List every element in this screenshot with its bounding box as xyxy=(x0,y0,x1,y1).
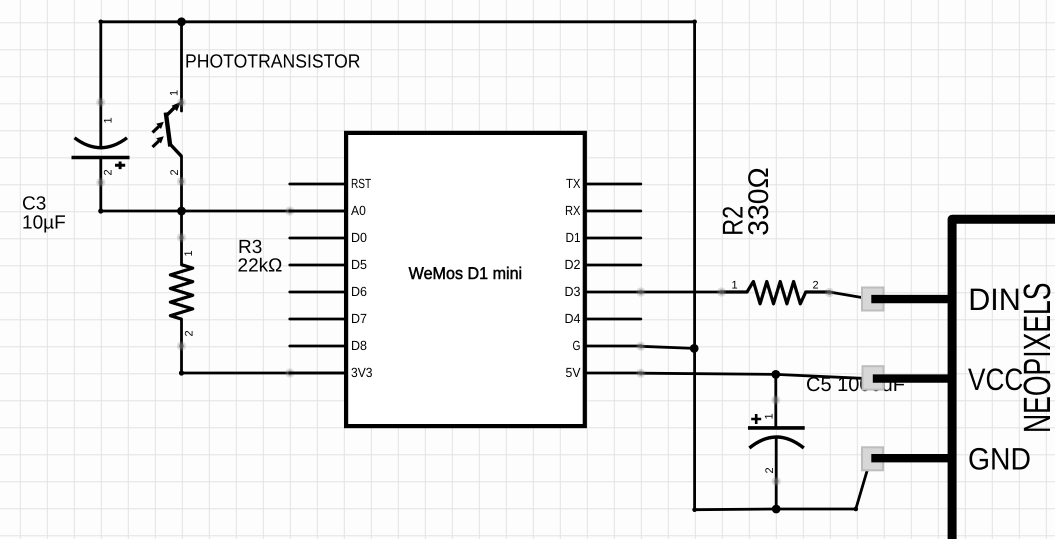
svg-text:D3: D3 xyxy=(565,284,581,299)
connection blob C3 pin1 xyxy=(96,98,105,107)
wire left vertical to C3 pin1 xyxy=(99,22,102,147)
svg-text:D0: D0 xyxy=(351,230,367,245)
svg-text:1: 1 xyxy=(764,413,776,419)
pad GND xyxy=(862,447,883,470)
pin stub D3 xyxy=(587,291,641,294)
pin stub D8 xyxy=(290,345,344,348)
svg-text:WeMos D1 mini: WeMos D1 mini xyxy=(409,264,523,283)
wire bottom horizontal to A0 xyxy=(101,210,344,213)
svg-text:2: 2 xyxy=(764,467,776,473)
neopixel strip VCC leg xyxy=(873,374,952,382)
junction dot 5V node xyxy=(771,370,780,379)
resistor R2 xyxy=(722,282,830,304)
junction dot R3 bottom corner xyxy=(179,370,184,375)
svg-text:1: 1 xyxy=(103,117,115,123)
connection blob D3 stub xyxy=(636,287,645,296)
svg-text:D8: D8 xyxy=(351,338,367,353)
wire bottom horizontal xyxy=(695,508,856,512)
resistor R3 xyxy=(170,211,192,373)
svg-text:A0: A0 xyxy=(351,203,366,218)
svg-text:D2: D2 xyxy=(565,257,581,272)
pin stub D4 xyxy=(587,318,641,321)
pin stub D2 xyxy=(587,264,641,267)
svg-text:VCC: VCC xyxy=(968,362,1023,397)
svg-text:2: 2 xyxy=(169,169,181,175)
neopixel strip GND leg xyxy=(871,454,952,462)
junction dot top left corner xyxy=(99,20,104,25)
svg-text:NEOPIXELS: NEOPIXELS xyxy=(1017,283,1055,434)
wire R2 to DIN pad xyxy=(830,292,872,299)
svg-text:10µF: 10µF xyxy=(22,212,66,233)
connection blob G stub xyxy=(636,342,645,351)
junction dot phototransistor top xyxy=(177,17,186,26)
phototransistor Q1 xyxy=(153,22,182,211)
svg-text:RX: RX xyxy=(565,203,581,218)
pin stub 5V xyxy=(587,372,641,375)
svg-text:D5: D5 xyxy=(351,257,367,272)
connection blob phototransistor pin2 xyxy=(177,177,186,186)
wire D3 to R2 xyxy=(641,291,722,294)
wire C3 pin2 down xyxy=(99,158,102,212)
connection blob R3 pin1 xyxy=(177,233,186,242)
connection blob 5V stub xyxy=(636,369,645,378)
junction dot bottom bend xyxy=(854,507,859,512)
svg-text:2: 2 xyxy=(184,330,196,336)
pin stub D6 xyxy=(290,291,344,294)
junction dot C5 bottom node xyxy=(772,505,781,514)
svg-text:D7: D7 xyxy=(351,311,367,326)
svg-text:D6: D6 xyxy=(351,284,367,299)
neopixel strip bar xyxy=(952,219,1055,539)
junction dot G node xyxy=(690,344,699,353)
wire top horizontal net xyxy=(101,20,695,23)
pad VCC xyxy=(863,366,884,389)
pin stub D0 xyxy=(290,237,344,240)
pin stub A0 xyxy=(290,210,344,213)
svg-text:RST: RST xyxy=(351,176,371,191)
wire main vertical right xyxy=(693,22,696,510)
junction dot node A0 xyxy=(177,207,186,216)
connection blob 3V3 stub xyxy=(285,368,294,377)
svg-text:D4: D4 xyxy=(565,311,581,326)
connection blob R2 pin1 xyxy=(717,287,726,296)
svg-text:1: 1 xyxy=(183,250,195,256)
capacitor C3 xyxy=(72,138,130,169)
connection blob A0 stub xyxy=(285,206,294,215)
connection blob R3 pin2 xyxy=(177,341,186,350)
svg-text:G: G xyxy=(573,338,581,353)
capacitor C5 xyxy=(748,374,805,509)
pin stub RST xyxy=(290,183,344,186)
neopixel strip DIN leg xyxy=(871,295,952,303)
connection blob C5 pin2 xyxy=(772,477,781,486)
svg-text:3V3: 3V3 xyxy=(351,365,373,380)
connection blob phototransistor pin1 xyxy=(177,98,186,107)
svg-text:D1: D1 xyxy=(566,230,581,245)
op-amp U1 WeMos D1 mini box xyxy=(346,133,585,426)
pad DIN xyxy=(862,288,884,311)
svg-text:22kΩ: 22kΩ xyxy=(238,256,283,277)
pin stub TX xyxy=(587,183,641,186)
svg-text:GND: GND xyxy=(968,442,1031,477)
pin stub G xyxy=(587,345,641,348)
junction dot C3 bottom xyxy=(98,208,103,213)
svg-text:5V: 5V xyxy=(566,365,581,380)
wire 5V to VCC xyxy=(641,373,873,379)
pin stub D7 xyxy=(290,318,344,321)
pin stub D5 xyxy=(290,264,344,267)
pin stub RX xyxy=(587,210,641,213)
svg-text:C3: C3 xyxy=(22,193,46,214)
pin stub D1 xyxy=(587,237,641,240)
svg-text:DIN: DIN xyxy=(968,282,1021,317)
junction dot top right corner xyxy=(692,20,697,25)
svg-text:TX: TX xyxy=(566,176,581,191)
connection blob C5 pin1 xyxy=(771,395,780,404)
svg-text:PHOTOTRANSISTOR: PHOTOTRANSISTOR xyxy=(185,51,361,72)
wire diagonal to GND pad xyxy=(856,458,871,510)
wire 3V3 horizontal xyxy=(182,372,345,375)
svg-text:1: 1 xyxy=(732,279,738,291)
svg-text:2: 2 xyxy=(103,169,115,175)
wire G to main vertical xyxy=(641,346,694,348)
connection blob C3 pin2 xyxy=(96,178,105,187)
pin stub 3V3 xyxy=(290,372,344,375)
connection blob R2 pin2 xyxy=(825,288,834,297)
svg-text:2: 2 xyxy=(813,279,819,291)
svg-text:1: 1 xyxy=(169,90,181,96)
junction dot bottom left corner xyxy=(692,507,697,512)
